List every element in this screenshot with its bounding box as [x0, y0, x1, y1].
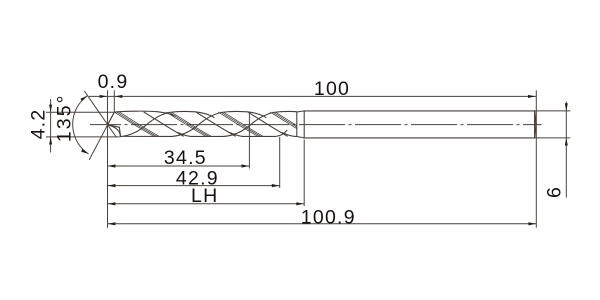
dimension line 0.9 / 100 (top)	[89, 95, 536, 97]
svg-text:4.2: 4.2	[28, 109, 50, 140]
drill shank	[304, 111, 536, 138]
point angle construction line lower-left	[89, 112, 114, 160]
point angle construction line upper-left	[85, 91, 117, 137]
svg-text:34.5: 34.5	[164, 147, 207, 169]
svg-text:100.9: 100.9	[301, 207, 356, 229]
flute end face and neck taper	[297, 111, 304, 138]
extension line top of diameter 4.2	[46, 111, 114, 113]
extension line shank top (dia 6)	[535, 110, 571, 112]
svg-text:0.9: 0.9	[98, 71, 129, 93]
svg-text:LH: LH	[191, 185, 218, 207]
extension line at shank end x=536.3	[535, 90, 537, 228]
dimension line 6 (vertical)	[565, 102, 567, 198]
dimension line 100.9	[108, 223, 537, 225]
extension line x=304.2	[303, 140, 305, 207]
wire centerline of drill axis	[90, 124, 542, 126]
drill point (tip, lips, chisel edge)	[108, 112, 121, 137]
dimension line 42.9	[108, 185, 280, 187]
flute groove edge lines	[144, 112, 287, 136]
drill flute margin bands	[114, 112, 314, 136]
extension line shank bottom (dia 6)	[535, 137, 571, 139]
extension line x=279.7	[279, 137, 281, 188]
extension line x=249.4	[248, 112, 250, 169]
drill flute silhouette and helix curves	[114, 111, 422, 136]
dimension line LH	[108, 203, 305, 205]
extension line bottom of diameter 4.2	[46, 136, 120, 138]
angular dimension arc 135deg	[73, 96, 89, 154]
extension line at drill tip x=107.5	[107, 90, 109, 228]
extension line at point/body junction x=114.3	[113, 90, 115, 112]
dimension line 4.2 (vertical)	[50, 99, 52, 153]
svg-text:135°: 135°	[54, 93, 76, 142]
svg-text:100: 100	[314, 78, 350, 100]
svg-text:6: 6	[544, 186, 566, 198]
dimension line 34.5	[108, 165, 250, 167]
